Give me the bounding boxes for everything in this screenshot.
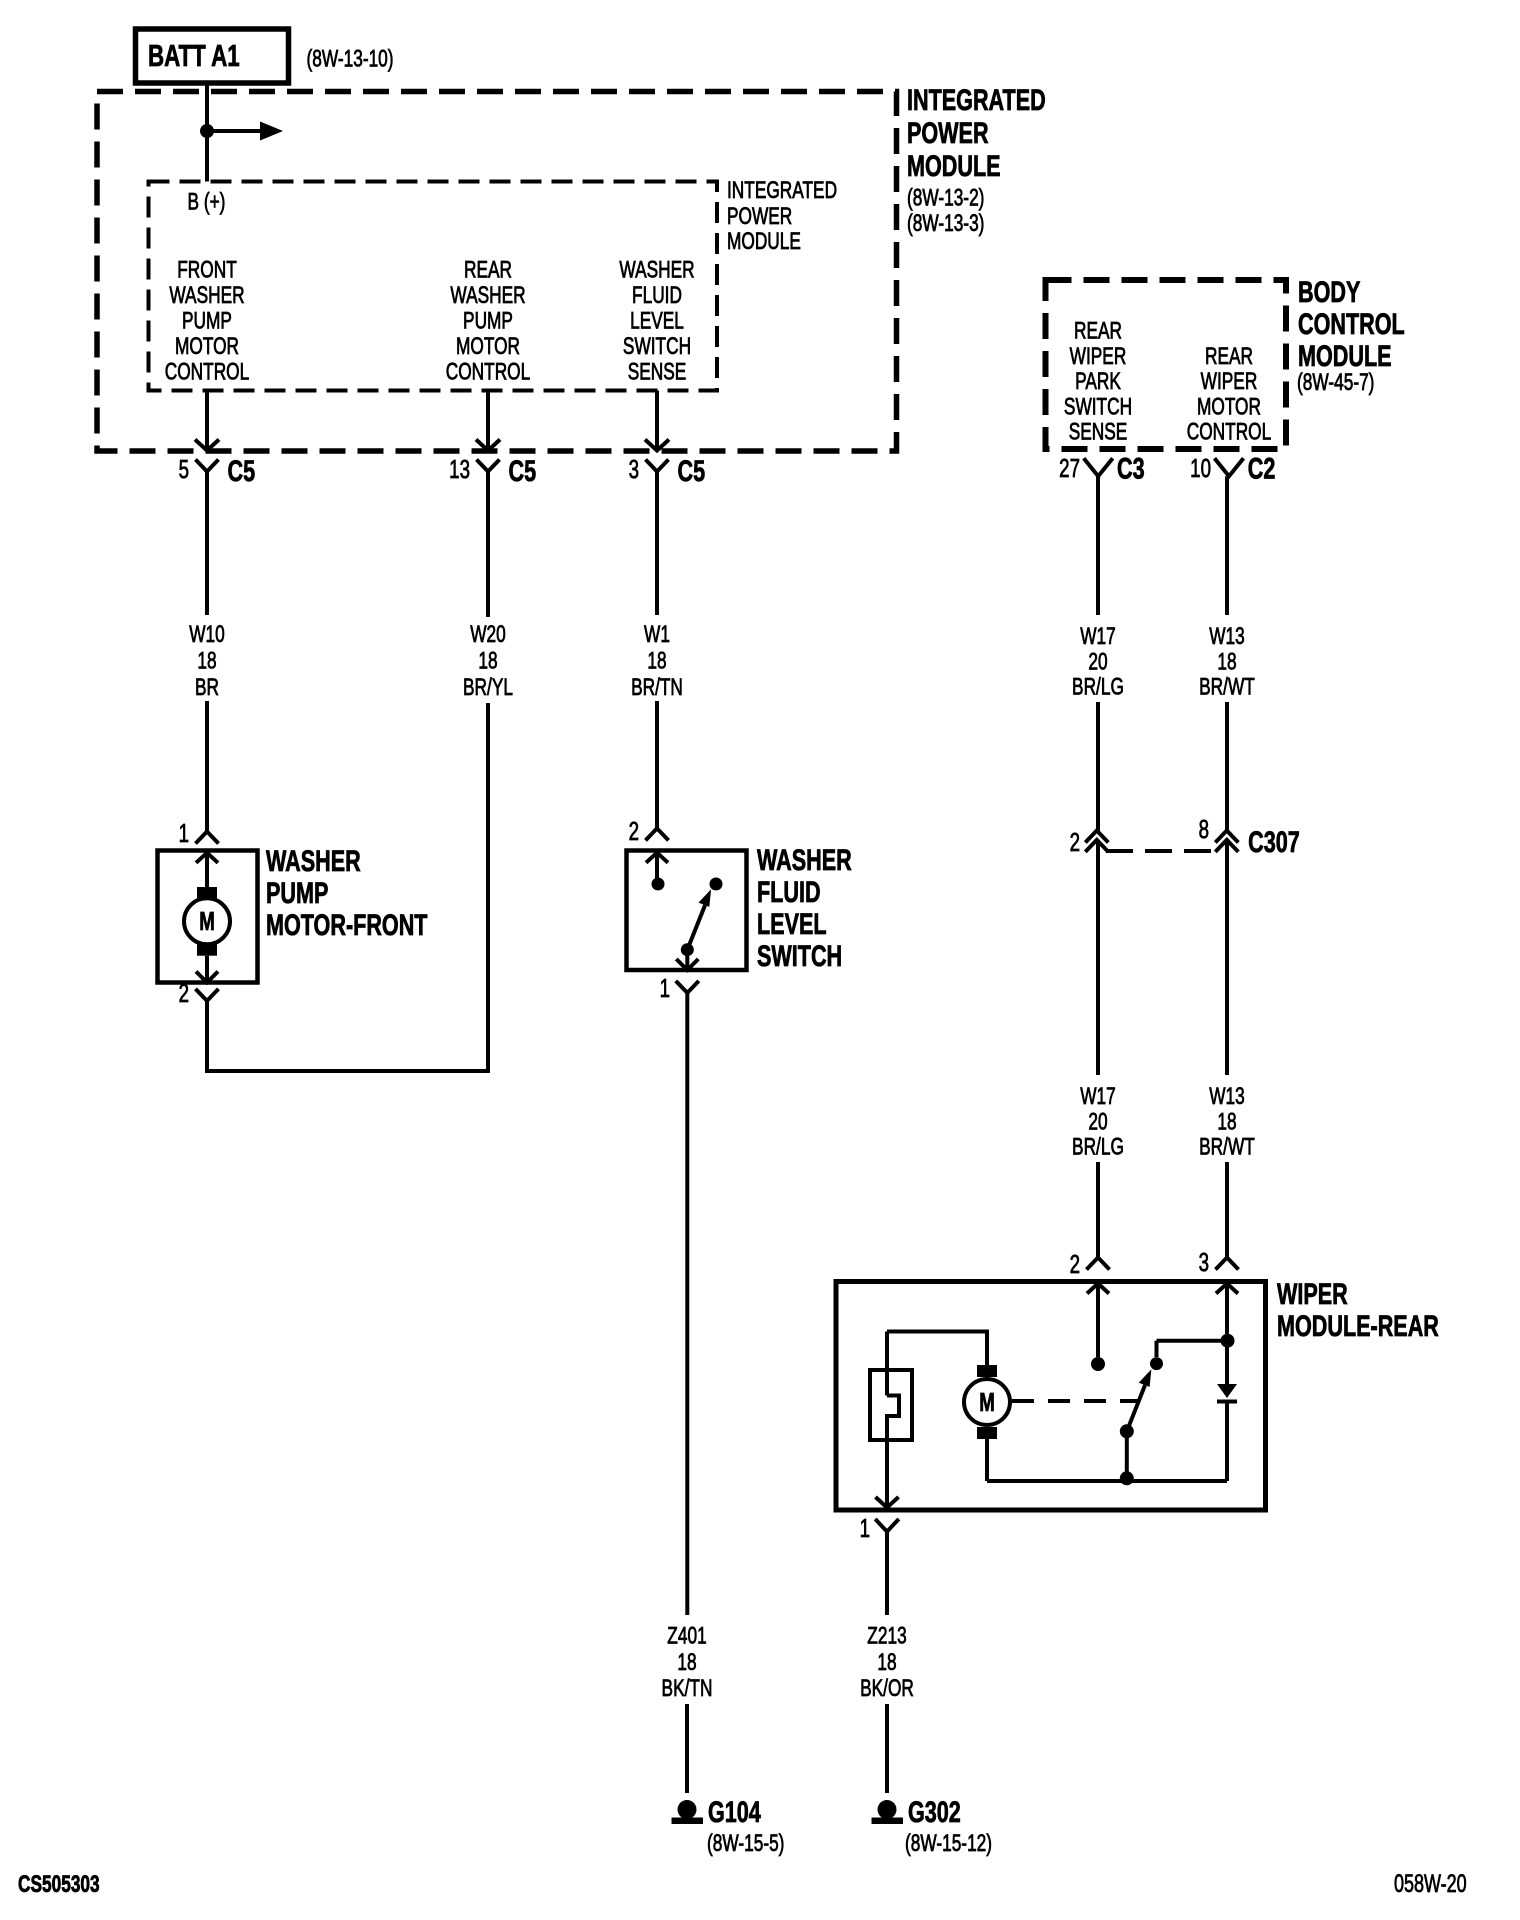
switch input arrow <box>646 853 668 878</box>
svg-text:MODULE: MODULE <box>1298 338 1392 372</box>
IPM references (8W-13-2) (8W-13-3) <box>907 185 984 237</box>
wire motor bottom to bus <box>985 1439 989 1481</box>
node B(+) <box>188 189 226 215</box>
svg-text:2: 2 <box>1070 1249 1080 1279</box>
svg-text:(8W-13-2): (8W-13-2) <box>907 185 984 211</box>
wiper module pin 2 connector <box>1070 1249 1110 1279</box>
wire W13 to wiper module <box>1225 1162 1229 1258</box>
svg-text:REAR: REAR <box>1205 343 1253 369</box>
wire BATT A1 to B(+) <box>205 84 209 182</box>
connector C2 pin 10 <box>1190 451 1275 485</box>
svg-text:BR/WT: BR/WT <box>1199 1134 1255 1160</box>
svg-text:CS505303: CS505303 <box>18 1871 100 1897</box>
svg-text:M: M <box>979 1387 995 1417</box>
svg-text:CONTROL: CONTROL <box>165 359 249 385</box>
svg-text:8: 8 <box>1199 814 1209 844</box>
svg-text:1: 1 <box>860 1513 870 1543</box>
junction dot on battery feed <box>200 124 214 138</box>
svg-text:W10: W10 <box>189 621 225 647</box>
svg-text:3: 3 <box>1199 1247 1209 1277</box>
switch fixed contact <box>652 878 665 891</box>
wire Z401 lower segment <box>685 1704 689 1793</box>
wire W1 lower segment <box>655 701 659 828</box>
svg-text:POWER: POWER <box>727 203 792 229</box>
IPM inner side label INTEGRATED POWER MODULE <box>727 177 837 254</box>
wiper module-rear box <box>836 1282 1266 1511</box>
svg-text:(8W-13-10): (8W-13-10) <box>306 46 393 72</box>
svg-text:W1: W1 <box>644 621 670 647</box>
svg-text:2: 2 <box>629 816 639 846</box>
wire label W20 18 BR/YL <box>463 621 513 700</box>
wire label W1 18 BR/TN <box>631 621 683 700</box>
label WASHER FLUID LEVEL SWITCH SENSE <box>619 257 694 385</box>
wire motor top to breaker <box>887 1332 987 1366</box>
svg-text:PUMP: PUMP <box>266 875 328 909</box>
bottom bus wire <box>987 1479 1227 1483</box>
svg-text:W13: W13 <box>1209 1083 1245 1109</box>
svg-text:POWER: POWER <box>907 115 989 149</box>
svg-text:W20: W20 <box>470 621 506 647</box>
washer pump motor-front box <box>158 851 258 983</box>
svg-text:1: 1 <box>660 973 670 1003</box>
svg-text:FRONT: FRONT <box>177 257 237 283</box>
svg-text:13: 13 <box>449 454 470 484</box>
washer pump motor-front pin 2 connector <box>179 978 219 1008</box>
washer pump motor-front pin 1 connector <box>179 818 219 848</box>
wire label W17 20 BR/LG <box>1072 623 1124 700</box>
mechanical link (dashed) motor to park switch <box>1012 1399 1140 1403</box>
breaker output arrow <box>876 1497 899 1508</box>
wire W10 upper segment <box>205 472 209 616</box>
svg-text:WIPER: WIPER <box>1070 343 1127 369</box>
wire W17 to wiper module <box>1096 1162 1100 1258</box>
svg-text:BR/WT: BR/WT <box>1199 674 1255 700</box>
svg-text:WIPER: WIPER <box>1277 1276 1348 1310</box>
svg-text:WASHER: WASHER <box>757 842 852 876</box>
label REAR WIPER PARK SWITCH SENSE <box>1064 318 1132 446</box>
svg-text:G104: G104 <box>708 1794 761 1828</box>
svg-text:BR/LG: BR/LG <box>1072 1134 1124 1160</box>
park switch open contact <box>1091 1357 1105 1371</box>
wire W13 upper segment <box>1225 476 1229 615</box>
svg-text:C2: C2 <box>1248 451 1276 485</box>
svg-text:BR/YL: BR/YL <box>463 674 513 700</box>
park switch upper contact <box>1150 1357 1163 1370</box>
wiper module pin 3 connector <box>1199 1247 1239 1277</box>
svg-text:WASHER: WASHER <box>450 282 525 308</box>
svg-text:(8W-45-7): (8W-45-7) <box>1297 369 1374 395</box>
wiper module pin 1 connector <box>860 1513 899 1543</box>
svg-text:WASHER: WASHER <box>266 843 361 877</box>
svg-text:3: 3 <box>629 454 639 484</box>
connector C5 pin 5 <box>179 453 256 487</box>
sheet code 058W-20 <box>1394 1869 1467 1898</box>
svg-text:SENSE: SENSE <box>1069 419 1128 445</box>
svg-text:18: 18 <box>677 1649 696 1675</box>
switch wire to pin 1 with arrow <box>676 950 698 970</box>
wire W1 upper segment <box>655 472 659 616</box>
svg-text:LEVEL: LEVEL <box>630 308 684 334</box>
switch moving contact pivot <box>681 943 694 956</box>
svg-text:C5: C5 <box>227 453 255 487</box>
svg-text:INTEGRATED: INTEGRATED <box>907 82 1046 116</box>
svg-text:MODULE-REAR: MODULE-REAR <box>1277 1308 1439 1342</box>
svg-text:BK/TN: BK/TN <box>662 1675 713 1701</box>
motor-front output arrow <box>196 972 218 983</box>
svg-text:20: 20 <box>1088 649 1107 675</box>
wire label W13 18 BR/WT (lower) <box>1199 1083 1255 1160</box>
svg-text:MODULE: MODULE <box>727 228 801 254</box>
svg-text:W13: W13 <box>1209 623 1245 649</box>
svg-text:Z213: Z213 <box>867 1623 906 1649</box>
BATT A1 reference label <box>306 46 393 72</box>
svg-text:SENSE: SENSE <box>628 359 687 385</box>
svg-text:1: 1 <box>179 818 189 848</box>
wire pivot to bottom bus <box>1125 1431 1129 1478</box>
svg-text:G302: G302 <box>908 1794 961 1828</box>
wire Z401 upper segment <box>685 993 689 1615</box>
junction dot pin3 branch <box>1221 1334 1235 1348</box>
wiper module pin 3 internal arrow and wire <box>1216 1284 1238 1341</box>
svg-text:2: 2 <box>179 978 189 1008</box>
svg-text:PUMP: PUMP <box>182 308 232 334</box>
wire IPM output to C5 pin 3 <box>645 391 669 451</box>
park switch blade with arrow <box>1127 1369 1152 1431</box>
svg-text:SWITCH: SWITCH <box>1064 394 1132 420</box>
svg-text:2: 2 <box>1070 827 1080 857</box>
svg-text:27: 27 <box>1059 453 1080 483</box>
wire label W10 18 BR <box>189 621 225 700</box>
svg-text:WASHER: WASHER <box>619 257 694 283</box>
svg-text:10: 10 <box>1190 453 1211 483</box>
sheet number CS505303 <box>18 1871 100 1897</box>
wire label Z401 18 BK/TN <box>662 1623 713 1702</box>
body control module dashed box <box>1046 280 1287 449</box>
wire label Z213 18 BK/OR <box>860 1623 914 1702</box>
motor M symbol (front pump) <box>184 887 230 981</box>
wire label W13 18 BR/WT <box>1199 623 1255 700</box>
ground reference (8W-15-12) <box>905 1830 992 1856</box>
svg-text:(8W-15-12): (8W-15-12) <box>905 1830 992 1856</box>
park switch pivot contact <box>1120 1424 1134 1438</box>
label WASHER PUMP MOTOR-FRONT <box>266 843 428 941</box>
svg-text:18: 18 <box>647 648 666 674</box>
svg-text:C3: C3 <box>1117 451 1145 485</box>
svg-text:(8W-15-5): (8W-15-5) <box>707 1830 784 1856</box>
svg-text:MODULE: MODULE <box>907 148 1001 182</box>
svg-text:Z401: Z401 <box>667 1623 706 1649</box>
svg-text:18: 18 <box>877 1649 896 1675</box>
wire W17 upper segment <box>1096 476 1100 615</box>
wire pump return W20 (pin2 to C5-13) <box>207 703 488 1071</box>
ground G302 <box>872 1800 904 1824</box>
wire diode to bus <box>1225 1404 1229 1482</box>
motor-front input arrow <box>196 853 218 888</box>
battery feed box BATT A1 <box>136 29 289 83</box>
svg-text:C5: C5 <box>677 453 705 487</box>
title WIPER MODULE-REAR <box>1277 1276 1439 1342</box>
svg-text:FLUID: FLUID <box>632 282 682 308</box>
svg-text:BR/TN: BR/TN <box>631 674 683 700</box>
integrated power module outer dashed box <box>97 92 897 452</box>
switch blade with arrow <box>687 889 711 949</box>
svg-text:WASHER: WASHER <box>169 282 244 308</box>
washer fluid level switch pin 1 connector <box>660 973 699 1003</box>
wire W17 below C307 <box>1096 840 1100 1075</box>
wire W13 below C307 <box>1225 840 1229 1075</box>
svg-text:(8W-13-3): (8W-13-3) <box>907 210 984 236</box>
wire W10 lower segment <box>205 701 209 832</box>
svg-text:18: 18 <box>478 648 497 674</box>
rear wiper motor M symbol <box>964 1365 1010 1439</box>
wiper module pin 2 internal arrow and wire <box>1087 1284 1109 1358</box>
svg-text:C307: C307 <box>1248 824 1300 858</box>
switch upper-right contact <box>710 878 723 891</box>
svg-text:SWITCH: SWITCH <box>757 938 842 972</box>
label REAR WASHER PUMP MOTOR CONTROL <box>446 257 530 385</box>
svg-text:BK/OR: BK/OR <box>860 1675 914 1701</box>
svg-text:BR/LG: BR/LG <box>1072 674 1124 700</box>
svg-text:LEVEL: LEVEL <box>757 906 827 940</box>
svg-text:CONTROL: CONTROL <box>1187 419 1271 445</box>
wire label W17 20 BR/LG (lower) <box>1072 1083 1124 1160</box>
svg-text:C5: C5 <box>509 453 537 487</box>
washer fluid level switch pin 2 connector <box>629 816 669 846</box>
ground label G302 <box>908 1794 961 1828</box>
svg-text:M: M <box>199 906 215 936</box>
svg-text:MOTOR: MOTOR <box>175 333 239 359</box>
wire W20 upper segment <box>486 472 490 618</box>
wire junction to diode <box>1225 1341 1229 1384</box>
svg-text:INTEGRATED: INTEGRATED <box>727 177 837 203</box>
svg-text:058W-20: 058W-20 <box>1394 1869 1467 1898</box>
connector C3 pin 27 <box>1059 451 1144 485</box>
wire IPM output to C5 pin 5 <box>195 391 219 451</box>
wire junction to park switch contact <box>1157 1341 1228 1357</box>
svg-text:CONTROL: CONTROL <box>446 359 530 385</box>
label FRONT WASHER PUMP MOTOR CONTROL <box>165 257 249 385</box>
svg-text:20: 20 <box>1088 1109 1107 1135</box>
IPM title INTEGRATED POWER MODULE <box>907 82 1046 182</box>
svg-text:SWITCH: SWITCH <box>623 333 691 359</box>
ground reference (8W-15-5) <box>707 1830 784 1856</box>
svg-text:18: 18 <box>197 648 216 674</box>
circuit breaker feed wire <box>885 1332 889 1396</box>
svg-text:W17: W17 <box>1080 623 1116 649</box>
svg-text:BR: BR <box>195 674 219 700</box>
svg-text:PUMP: PUMP <box>463 308 513 334</box>
arrow feed to other circuits <box>207 122 283 141</box>
connector C5 pin 13 <box>449 453 536 487</box>
ground label G104 <box>708 1794 761 1828</box>
svg-text:BATT A1: BATT A1 <box>148 38 240 72</box>
svg-text:BODY: BODY <box>1298 274 1360 308</box>
svg-text:MOTOR-FRONT: MOTOR-FRONT <box>266 907 428 941</box>
svg-text:5: 5 <box>179 454 189 484</box>
wire W17 to C307 <box>1096 702 1100 831</box>
inline connector C307 <box>1070 814 1300 859</box>
wire Z213 lower segment <box>885 1704 889 1793</box>
washer fluid level switch box <box>627 851 747 971</box>
svg-text:PARK: PARK <box>1075 368 1121 394</box>
IPM internal dashed box <box>149 182 718 391</box>
ground G104 <box>672 1800 704 1824</box>
BCM reference (8W-45-7) <box>1297 369 1374 395</box>
wire Z213 upper segment <box>885 1532 889 1615</box>
svg-text:WIPER: WIPER <box>1201 368 1258 394</box>
junction dot on bottom bus <box>1120 1471 1134 1485</box>
label WASHER FLUID LEVEL SWITCH <box>757 842 852 972</box>
circuit breaker element <box>870 1370 912 1505</box>
connector C5 pin 3 <box>629 453 706 487</box>
BCM title BODY CONTROL MODULE <box>1298 274 1405 372</box>
svg-text:MOTOR: MOTOR <box>456 333 520 359</box>
svg-text:REAR: REAR <box>1074 318 1122 344</box>
diode (park suppression) <box>1217 1384 1237 1404</box>
svg-text:CONTROL: CONTROL <box>1298 306 1405 340</box>
svg-text:18: 18 <box>1217 649 1236 675</box>
svg-text:MOTOR: MOTOR <box>1197 394 1261 420</box>
wire IPM output to C5 pin 13 <box>476 391 500 451</box>
label REAR WIPER MOTOR CONTROL <box>1187 343 1271 445</box>
svg-text:18: 18 <box>1217 1109 1236 1135</box>
svg-text:FLUID: FLUID <box>757 874 821 908</box>
svg-text:W17: W17 <box>1080 1083 1116 1109</box>
svg-text:B (+): B (+) <box>188 189 226 215</box>
wire W13 to C307 <box>1225 702 1229 831</box>
svg-text:REAR: REAR <box>464 257 512 283</box>
